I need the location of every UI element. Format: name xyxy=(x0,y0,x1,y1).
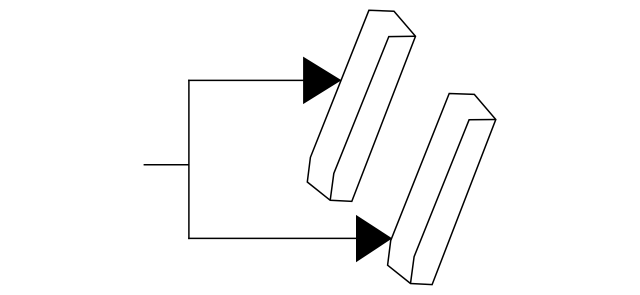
wire: vertical bracket line xyxy=(188,80,190,240)
wire: top leader line xyxy=(188,79,304,81)
wire: bottom leader line xyxy=(188,237,356,239)
arrow 2 (bottom) xyxy=(356,215,392,262)
part: molding bar 1 (upper left) xyxy=(307,10,415,201)
arrow 1 (top) xyxy=(303,57,341,105)
part: molding bar 2 (lower right) xyxy=(388,94,496,285)
wire: left stub line xyxy=(144,164,189,166)
